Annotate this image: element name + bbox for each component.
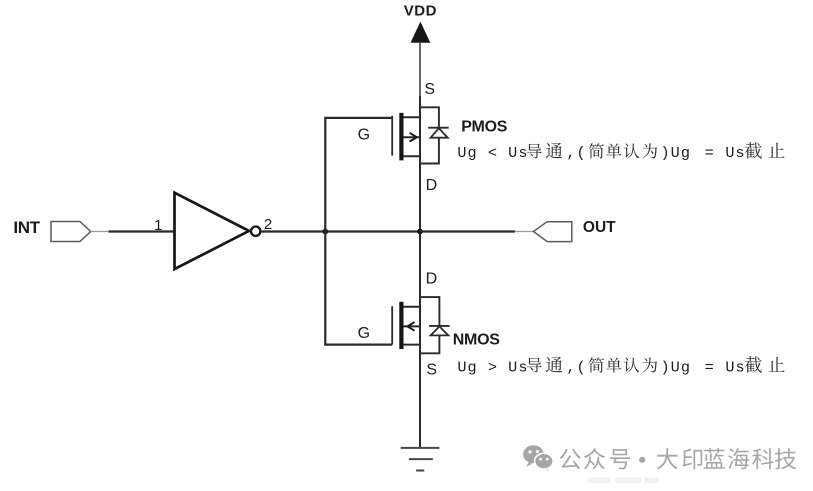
node OUT junction dot: [417, 229, 423, 235]
svg-text:Us: Us: [725, 144, 745, 162]
wire gate bus vertical: [324, 118, 326, 345]
wire OUT stub (light): [515, 231, 534, 233]
wire OUT node to port: [420, 230, 515, 232]
transistor Q1 PMOS source lead: [403, 116, 420, 118]
watermark wechat icon: [523, 445, 553, 471]
transistor Q1 PMOS drain lead: [403, 155, 420, 157]
transistor Q2 NMOS source lead: [403, 344, 420, 346]
diode body-diode of NMOS triangle: [431, 326, 449, 335]
transistor Q2 NMOS body lead with arrow: [403, 322, 420, 331]
svg-text:VDD: VDD: [404, 2, 437, 19]
wire INT stub (light): [91, 231, 109, 233]
transistor Q1 PMOS channel bar: [399, 113, 403, 160]
value note NMOS: Ug &gt; Us conducts / Ug = Us cutoff: [457, 356, 784, 376]
node gate-bus junction dot: [322, 229, 328, 235]
diode body-diode of PMOS triangle: [431, 128, 448, 138]
watermark ghost line: [588, 478, 659, 484]
diode body-diode of PMOS branch wires: [420, 107, 439, 163]
svg-text:D: D: [426, 177, 438, 194]
wire main vertical net VDD->PMOS->OUT->NMOS->GND: [419, 96, 421, 448]
diode body-diode of NMOS branch wires: [420, 297, 439, 353]
transistor Q2 NMOS gate bar: [391, 306, 393, 344]
svg-text:=: =: [705, 358, 715, 376]
transistor Q2 NMOS drain lead: [403, 306, 420, 308]
transistor Q1 PMOS gate bar: [391, 116, 393, 156]
svg-text:Us: Us: [725, 358, 745, 376]
wire VDD rail (light segment under arrow): [419, 43, 421, 96]
diode body-diode of PMOS cathode bar: [428, 127, 449, 129]
wire inverter output to OUT node: [260, 230, 420, 232]
transistor Q1 PMOS body lead with arrow: [403, 133, 420, 142]
svg-text:D: D: [426, 270, 438, 287]
diode body-diode of NMOS cathode bar: [429, 325, 450, 327]
svg-text:G: G: [358, 126, 370, 143]
watermark text 公众号·大印蓝海科技: [560, 448, 796, 469]
svg-text:Ug < Us: Ug < Us: [457, 144, 528, 162]
svg-text:G: G: [358, 325, 370, 342]
svg-text:=: =: [705, 144, 715, 162]
svg-text:S: S: [424, 81, 435, 98]
wire PMOS gate feed: [324, 117, 392, 119]
svg-text:S: S: [426, 362, 437, 379]
svg-text:PMOS: PMOS: [461, 118, 508, 135]
wire NMOS gate feed: [324, 344, 392, 346]
svg-text:1: 1: [154, 217, 162, 234]
ground symbol: [401, 448, 440, 471]
transistor Q2 NMOS channel bar: [399, 302, 403, 349]
svg-text:Ug > Us: Ug > Us: [457, 358, 528, 376]
wire INT to inverter input: [109, 230, 175, 232]
inverter U1 output bubble: [251, 227, 260, 236]
svg-text:OUT: OUT: [583, 219, 616, 236]
value note PMOS: Ug &lt; Us conducts / Ug = Us cutoff: [457, 142, 784, 162]
svg-text:)Ug: )Ug: [661, 358, 692, 376]
svg-text:)Ug: )Ug: [661, 144, 692, 162]
svg-text:NMOS: NMOS: [453, 331, 500, 348]
svg-text:,(: ,(: [566, 144, 586, 162]
op-amp style inverter U1 triangle: [175, 193, 250, 269]
svg-text:INT: INT: [13, 218, 40, 237]
power VDD arrow symbol: [411, 22, 431, 43]
port INT (input connector): [51, 222, 91, 242]
svg-text:,(: ,(: [566, 358, 586, 376]
port OUT (output connector): [533, 222, 571, 242]
